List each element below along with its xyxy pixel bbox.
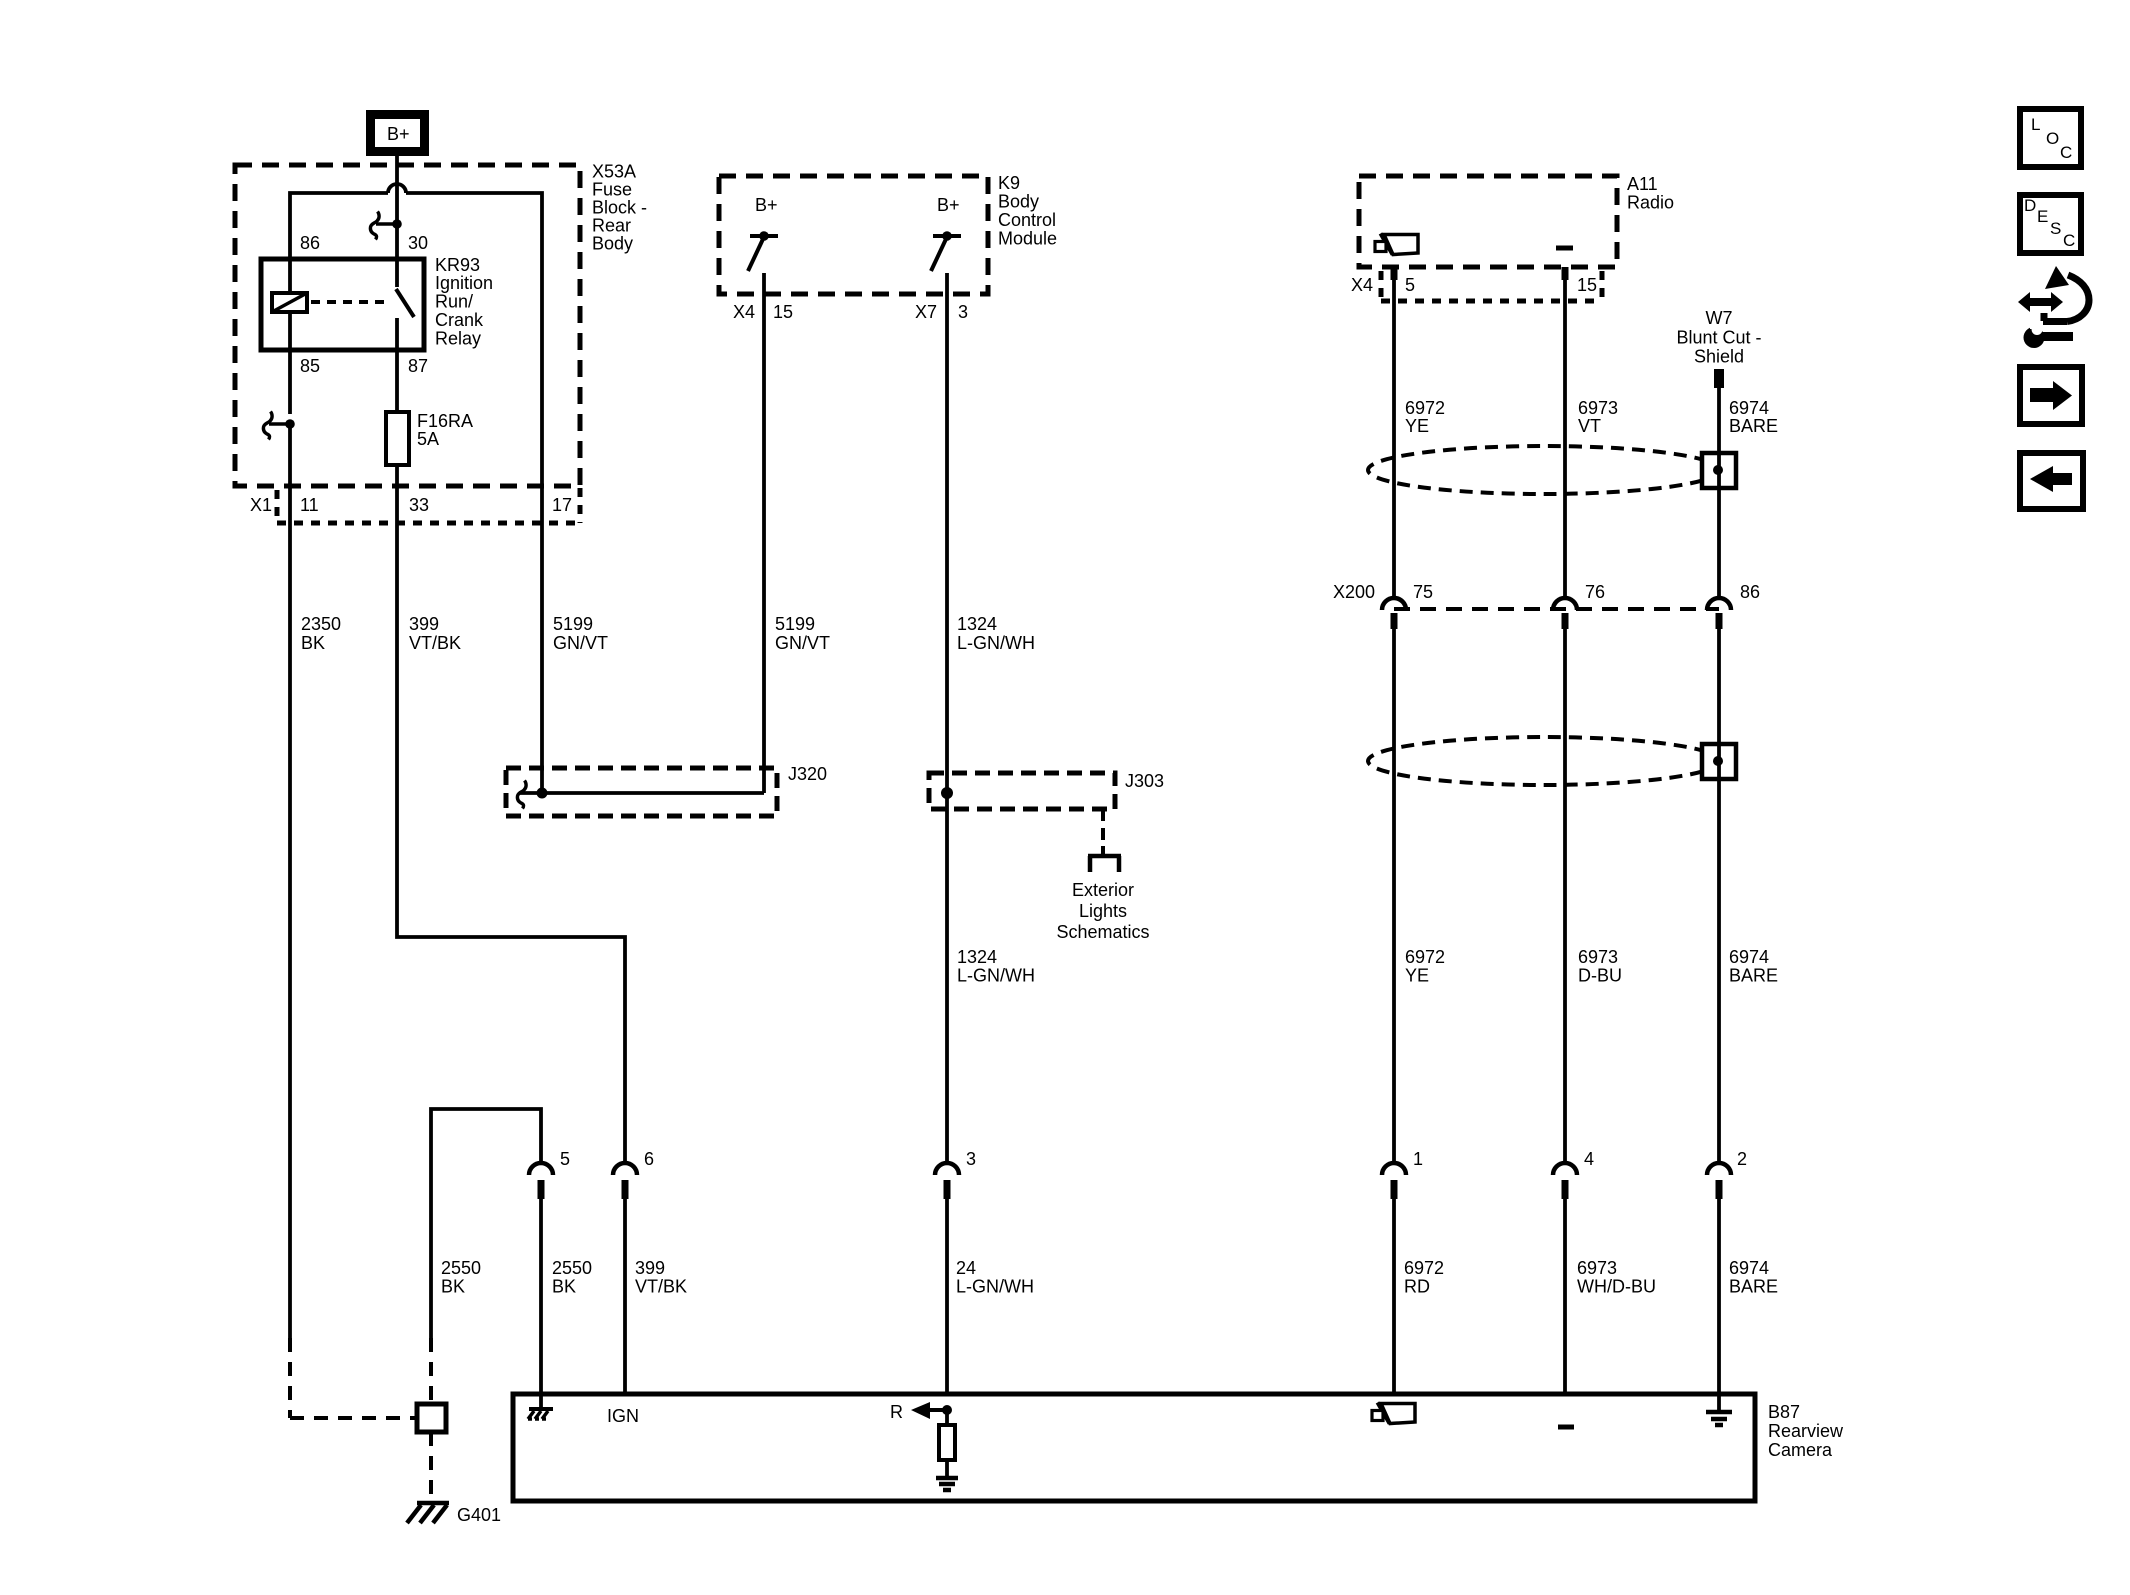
- svg-text:399: 399: [635, 1258, 665, 1278]
- previous page button: [2020, 453, 2083, 509]
- svg-text:R: R: [890, 1402, 903, 1422]
- svg-text:Lights: Lights: [1079, 901, 1127, 921]
- svg-text:399: 399: [409, 614, 439, 634]
- svg-text:Relay: Relay: [435, 329, 481, 349]
- wire 6973 from radio: [1563, 280, 1567, 598]
- svg-text:6973: 6973: [1578, 947, 1618, 967]
- camera internal ground: [936, 1476, 958, 1481]
- shield connection box upper: [1702, 453, 1736, 488]
- svg-text:BK: BK: [552, 1277, 576, 1297]
- svg-text:Blunt Cut -: Blunt Cut -: [1676, 328, 1761, 348]
- svg-text:RD: RD: [1404, 1277, 1430, 1297]
- K9 internal switch right: [933, 234, 961, 238]
- camera pin 1 terminal: [1382, 1163, 1406, 1175]
- svg-text:2350: 2350: [301, 614, 341, 634]
- camera R input node: [942, 1405, 952, 1415]
- camera pin 6 terminal: [613, 1163, 637, 1175]
- svg-text:VT/BK: VT/BK: [409, 633, 461, 653]
- W7 blunt cut terminal: [1714, 369, 1724, 388]
- svg-text:1: 1: [1413, 1149, 1423, 1169]
- svg-text:B+: B+: [937, 195, 960, 215]
- relay switch: [395, 259, 399, 287]
- svg-text:K9: K9: [998, 173, 1020, 193]
- svg-text:6972: 6972: [1405, 398, 1445, 418]
- wire 6972 from radio: [1392, 280, 1396, 598]
- shield connection box lower: [1702, 744, 1736, 779]
- relay coil: [288, 259, 292, 293]
- svg-text:BK: BK: [301, 633, 325, 653]
- svg-text:3: 3: [958, 302, 968, 322]
- svg-text:B+: B+: [387, 124, 410, 144]
- camera pin 3 terminal: [935, 1163, 959, 1175]
- svg-text:3: 3: [966, 1149, 976, 1169]
- ground block to G401 dashed: [429, 1432, 433, 1498]
- J303 dashed branch: [1101, 809, 1105, 850]
- svg-text:6974: 6974: [1729, 947, 1769, 967]
- svg-text:Body: Body: [592, 234, 633, 254]
- camera pin 5 terminal: [529, 1163, 553, 1175]
- svg-text:X4: X4: [733, 302, 755, 322]
- svg-text:S: S: [2050, 219, 2061, 238]
- splice J320 wire: [517, 781, 526, 809]
- svg-text:Exterior: Exterior: [1072, 880, 1134, 900]
- camera symbol in B87: [1381, 1404, 1415, 1424]
- svg-text:W7: W7: [1706, 308, 1733, 328]
- svg-text:Radio: Radio: [1627, 193, 1674, 213]
- svg-text:GN/VT: GN/VT: [775, 633, 830, 653]
- wire 6972 mid: [1392, 629, 1396, 1163]
- radio A11 box: [1359, 176, 1617, 267]
- svg-text:B87: B87: [1768, 1402, 1800, 1422]
- svg-text:J303: J303: [1125, 771, 1164, 791]
- wire 5199 GN/VT left run: [540, 486, 544, 793]
- svg-text:BARE: BARE: [1729, 1277, 1778, 1297]
- DESC button: [2020, 195, 2081, 253]
- svg-text:5199: 5199: [553, 614, 593, 634]
- camera symbol in radio: [1384, 235, 1418, 255]
- diagnostic icon wrench: [2024, 327, 2045, 348]
- svg-text:11: 11: [300, 495, 319, 515]
- svg-text:86: 86: [300, 233, 320, 253]
- svg-text:6972: 6972: [1405, 947, 1445, 967]
- svg-text:Schematics: Schematics: [1056, 922, 1149, 942]
- svg-text:6972: 6972: [1404, 1258, 1444, 1278]
- diagnostic icon double arrow: [2027, 298, 2054, 306]
- relay KR93 box: [261, 259, 424, 350]
- next page button: [2020, 367, 2082, 424]
- svg-text:Control: Control: [998, 210, 1056, 230]
- svg-text:30: 30: [408, 233, 428, 253]
- svg-text:6974: 6974: [1729, 1258, 1769, 1278]
- diagnostic icon curved arrow: [2041, 313, 2048, 321]
- svg-text:X4: X4: [1351, 275, 1373, 295]
- camera pin 4 terminal: [1553, 1163, 1577, 1175]
- svg-text:GN/VT: GN/VT: [553, 633, 608, 653]
- splice J320 box: [506, 768, 777, 816]
- svg-text:F16RA: F16RA: [417, 411, 473, 431]
- svg-text:Rearview: Rearview: [1768, 1421, 1844, 1441]
- svg-text:15: 15: [773, 302, 793, 322]
- svg-text:Ignition: Ignition: [435, 273, 493, 293]
- wire 399 VT/BK run: [397, 523, 625, 1163]
- svg-text:B+: B+: [755, 195, 778, 215]
- svg-text:33: 33: [409, 495, 429, 515]
- wire relay 87 to fuse: [395, 350, 399, 412]
- svg-text:A11: A11: [1627, 174, 1658, 194]
- svg-text:5: 5: [560, 1149, 570, 1169]
- svg-text:J320: J320: [788, 764, 827, 784]
- svg-text:85: 85: [300, 356, 320, 376]
- svg-text:BARE: BARE: [1729, 966, 1778, 986]
- svg-text:G401: G401: [457, 1505, 501, 1525]
- svg-text:YE: YE: [1405, 416, 1429, 436]
- svg-text:Run/: Run/: [435, 292, 473, 312]
- ground G401 symbol: [417, 1501, 449, 1506]
- wire 6974 mid: [1717, 629, 1721, 1163]
- camera internal resistor: [945, 1410, 949, 1425]
- rearview camera B87 box: [513, 1394, 1755, 1501]
- wire relay 85 down: [288, 350, 292, 414]
- svg-text:Module: Module: [998, 229, 1057, 249]
- off-page connector to exterior lights: [1101, 846, 1105, 856]
- fuse block X53A box: [235, 165, 580, 486]
- LOC button: [2020, 109, 2081, 167]
- wire B+ feed down into fuse block: [395, 151, 399, 222]
- camera shield ground at pin 2: [1717, 1396, 1721, 1412]
- fuse F16RA: [386, 412, 409, 465]
- connector X1 strip: [275, 490, 280, 521]
- svg-text:X200: X200: [1333, 582, 1375, 602]
- svg-text:6973: 6973: [1577, 1258, 1617, 1278]
- svg-text:15: 15: [1577, 275, 1597, 295]
- svg-text:17: 17: [552, 495, 572, 515]
- X4 pin 5 terminal stub: [1391, 267, 1398, 280]
- wire K9 X4-15 down 5199 GN/VT: [762, 294, 766, 793]
- svg-text:BK: BK: [441, 1277, 465, 1297]
- svg-text:6974: 6974: [1729, 398, 1769, 418]
- svg-text:KR93: KR93: [435, 255, 480, 275]
- svg-text:87: 87: [408, 356, 428, 376]
- svg-text:2: 2: [1737, 1149, 1747, 1169]
- splice J303 box: [929, 773, 1115, 809]
- svg-text:76: 76: [1585, 582, 1605, 602]
- splice J303 dot: [941, 787, 953, 799]
- X200 terminal 75: [1382, 598, 1406, 610]
- connector X200 dashed link: [1394, 607, 1719, 611]
- svg-text:L-GN/WH: L-GN/WH: [956, 1277, 1034, 1297]
- wire fuse to X1 pin 33: [395, 465, 399, 523]
- svg-text:IGN: IGN: [607, 1406, 639, 1426]
- svg-text:D: D: [2024, 196, 2036, 215]
- svg-text:C: C: [2063, 231, 2075, 250]
- shield twisted pair ellipse lower: [1368, 737, 1720, 785]
- svg-text:E: E: [2037, 207, 2048, 226]
- svg-text:6: 6: [644, 1149, 654, 1169]
- svg-text:VT: VT: [1578, 416, 1601, 436]
- wire 6973 mid: [1563, 629, 1567, 1163]
- svg-text:Body: Body: [998, 192, 1039, 212]
- wire 2350 BK dashed to ground block: [288, 1338, 292, 1418]
- ground distribution block: [417, 1404, 446, 1432]
- svg-text:Crank: Crank: [435, 310, 484, 330]
- clip at relay pin 30: [370, 212, 379, 240]
- svg-text:Camera: Camera: [1768, 1440, 1833, 1460]
- svg-text:75: 75: [1413, 582, 1433, 602]
- bus wire with hop over B+ wire: [290, 193, 388, 261]
- svg-text:Rear: Rear: [592, 216, 631, 236]
- svg-text:2550: 2550: [552, 1258, 592, 1278]
- clip at X1 pin 11: [263, 412, 272, 440]
- svg-text:D-BU: D-BU: [1578, 966, 1622, 986]
- wire 2550 BK dashed to ground block: [429, 1338, 433, 1404]
- wire K9 X7-3 down 1324 L-GN/WH: [945, 294, 949, 1163]
- minus sign in B87: [1558, 1425, 1574, 1430]
- relay actuator dashed link: [311, 300, 390, 304]
- wire 2550 BK upper run: [431, 1109, 541, 1338]
- svg-text:X53A: X53A: [592, 162, 636, 182]
- svg-text:WH/D-BU: WH/D-BU: [1577, 1277, 1656, 1297]
- camera pin 2 terminal: [1707, 1163, 1731, 1175]
- svg-text:86: 86: [1740, 582, 1760, 602]
- svg-text:C: C: [2060, 143, 2072, 162]
- svg-text:5199: 5199: [775, 614, 815, 634]
- svg-text:Block -: Block -: [592, 198, 647, 218]
- svg-text:1324: 1324: [957, 614, 997, 634]
- body control module K9 box: [719, 176, 988, 294]
- X200 terminal 76: [1553, 598, 1577, 610]
- wire 6974 shield upper: [1717, 388, 1721, 598]
- svg-text:5: 5: [1405, 275, 1415, 295]
- svg-text:L: L: [2031, 115, 2040, 134]
- svg-text:L-GN/WH: L-GN/WH: [957, 633, 1035, 653]
- wire pin30 to relay: [395, 222, 399, 261]
- svg-text:BARE: BARE: [1729, 416, 1778, 436]
- X200 terminal 86: [1707, 598, 1731, 610]
- svg-text:6973: 6973: [1578, 398, 1618, 418]
- svg-text:24: 24: [956, 1258, 976, 1278]
- svg-text:Shield: Shield: [1694, 347, 1744, 367]
- K9 internal switch left: [750, 234, 778, 238]
- svg-text:Fuse: Fuse: [592, 180, 632, 200]
- svg-text:X7: X7: [915, 302, 937, 322]
- wire 2350 BK: [288, 523, 292, 1338]
- X4 pin 15 terminal stub: [1562, 267, 1569, 280]
- svg-text:4: 4: [1584, 1149, 1594, 1169]
- wire clip to X1 pin 11: [288, 424, 292, 523]
- svg-text:O: O: [2046, 129, 2059, 148]
- svg-text:2550: 2550: [441, 1258, 481, 1278]
- svg-text:VT/BK: VT/BK: [635, 1277, 687, 1297]
- svg-text:YE: YE: [1405, 966, 1429, 986]
- camera housing ground at pin 5: [539, 1396, 543, 1409]
- svg-text:X1: X1: [250, 495, 272, 515]
- svg-text:1324: 1324: [957, 947, 997, 967]
- svg-text:5A: 5A: [417, 429, 439, 449]
- radio connector X4 strip: [1379, 271, 1384, 301]
- minus sign in radio: [1556, 246, 1573, 251]
- shield twisted pair ellipse upper: [1368, 446, 1720, 494]
- svg-text:L-GN/WH: L-GN/WH: [957, 966, 1035, 986]
- battery feed B+ terminal: [371, 115, 425, 152]
